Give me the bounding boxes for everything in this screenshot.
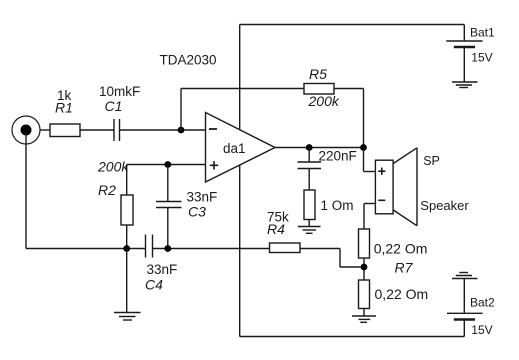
- svg-text:15V: 15V: [471, 323, 492, 337]
- wire R7 lower to ground: [363, 309, 365, 317]
- ground symbol below R7: [352, 316, 376, 322]
- svg-text:SP: SP: [423, 154, 440, 168]
- resistor R2: [121, 195, 133, 225]
- node junction C1/feedback: [178, 127, 185, 134]
- wire between R7 resistors: [363, 258, 365, 280]
- svg-text:da1: da1: [223, 141, 246, 156]
- wire corner down to R2: [126, 165, 128, 196]
- wire R4 step down: [339, 249, 341, 268]
- battery Bat1: [446, 25, 482, 83]
- wire jack ground down: [25, 133, 27, 249]
- capacitor C4: [146, 235, 153, 258]
- capacitor C1: [114, 119, 120, 141]
- svg-text:Bat1: Bat1: [470, 26, 495, 40]
- wire top rail: [240, 24, 465, 26]
- resistor R1: [50, 124, 80, 137]
- resistor R4: [270, 243, 301, 253]
- op-amp minus sign: [209, 128, 217, 130]
- ground symbol below Bat1: [452, 82, 478, 88]
- svg-text:1 Om: 1 Om: [321, 198, 354, 213]
- wire C1 to op-amp inverting input: [120, 129, 206, 131]
- svg-text:R5: R5: [309, 66, 327, 82]
- svg-text:R7: R7: [395, 260, 414, 276]
- speaker SP body: [375, 160, 393, 214]
- svg-text:R4: R4: [267, 221, 285, 237]
- battery Bat2: [447, 279, 483, 337]
- speaker horn: [393, 148, 417, 226]
- wire C3 top: [167, 165, 169, 202]
- wire 220nF top: [308, 148, 310, 163]
- wire R5 right: [334, 88, 364, 90]
- wire to ground below R2 junction: [126, 249, 128, 313]
- node junction plus input / C3: [164, 161, 171, 168]
- svg-text:0,22 Om: 0,22 Om: [374, 241, 428, 257]
- wire bottom rail: [240, 336, 465, 338]
- svg-text:10mkF: 10mkF: [99, 84, 140, 99]
- wire negative supply from op-amp down: [239, 165, 241, 337]
- capacitor C3: [156, 202, 182, 208]
- wire R2 to bottom rail: [126, 225, 128, 249]
- resistor 1 Om: [304, 190, 315, 220]
- svg-text:200k: 200k: [308, 93, 340, 109]
- ground symbol below 1 Om: [298, 227, 321, 234]
- resistor R7 upper 0,22 Om: [359, 229, 370, 258]
- wire speaker plus from output node: [364, 148, 376, 172]
- node junction R4/R7: [361, 264, 368, 271]
- wire 1 Om to ground: [308, 220, 310, 227]
- wire R5 down to output node: [363, 89, 365, 148]
- resistor R7 lower 0,22 Om: [359, 280, 370, 309]
- svg-text:Speaker: Speaker: [420, 198, 469, 213]
- wire bottom left horizontal: [26, 248, 146, 250]
- svg-text:TDA2030: TDA2030: [160, 53, 217, 68]
- speaker plus sign: [378, 168, 385, 175]
- wire jack to R1: [40, 129, 51, 131]
- wire C3 bottom: [167, 208, 169, 249]
- svg-text:R1: R1: [55, 100, 73, 116]
- op-amp da1: [206, 113, 276, 183]
- svg-text:15V: 15V: [471, 51, 492, 65]
- svg-text:C1: C1: [105, 98, 123, 114]
- wire speaker minus: [364, 204, 375, 230]
- input jack J1: [12, 116, 40, 144]
- svg-text:C4: C4: [145, 277, 163, 293]
- wire non-inverting input: [127, 164, 206, 166]
- wire feedback horizontal to R5: [181, 88, 304, 90]
- svg-text:200k: 200k: [97, 159, 129, 175]
- ground symbol below R2: [114, 313, 141, 321]
- speaker minus sign: [378, 199, 385, 201]
- svg-text:Bat2: Bat2: [470, 296, 495, 310]
- svg-text:R2: R2: [98, 182, 116, 198]
- svg-text:0,22 Om: 0,22 Om: [375, 286, 429, 302]
- svg-text:C3: C3: [188, 204, 206, 220]
- wire positive supply down to op-amp: [239, 25, 241, 130]
- wire R4 to R7 junction: [340, 266, 364, 268]
- wire C4 to R4: [153, 248, 270, 250]
- wire R4 right: [300, 248, 340, 250]
- wire R1 to C1: [80, 129, 114, 131]
- ground symbol above Bat2: [452, 273, 478, 279]
- svg-text:33nF: 33nF: [187, 190, 218, 205]
- node junction output/220nF: [306, 144, 313, 151]
- op-amp output wire: [275, 147, 364, 149]
- node junction output/R5/speaker: [360, 144, 367, 151]
- node junction C3/bottom: [164, 245, 171, 252]
- wire 220nF to 1 Om: [308, 169, 310, 191]
- svg-text:220nF: 220nF: [319, 149, 357, 164]
- resistor R5: [304, 84, 334, 95]
- capacitor 220nF: [298, 162, 322, 169]
- node junction R2/ground: [123, 245, 130, 252]
- svg-text:33nF: 33nF: [147, 262, 178, 277]
- wire feedback vertical: [180, 89, 182, 131]
- op-amp plus sign: [210, 161, 218, 169]
